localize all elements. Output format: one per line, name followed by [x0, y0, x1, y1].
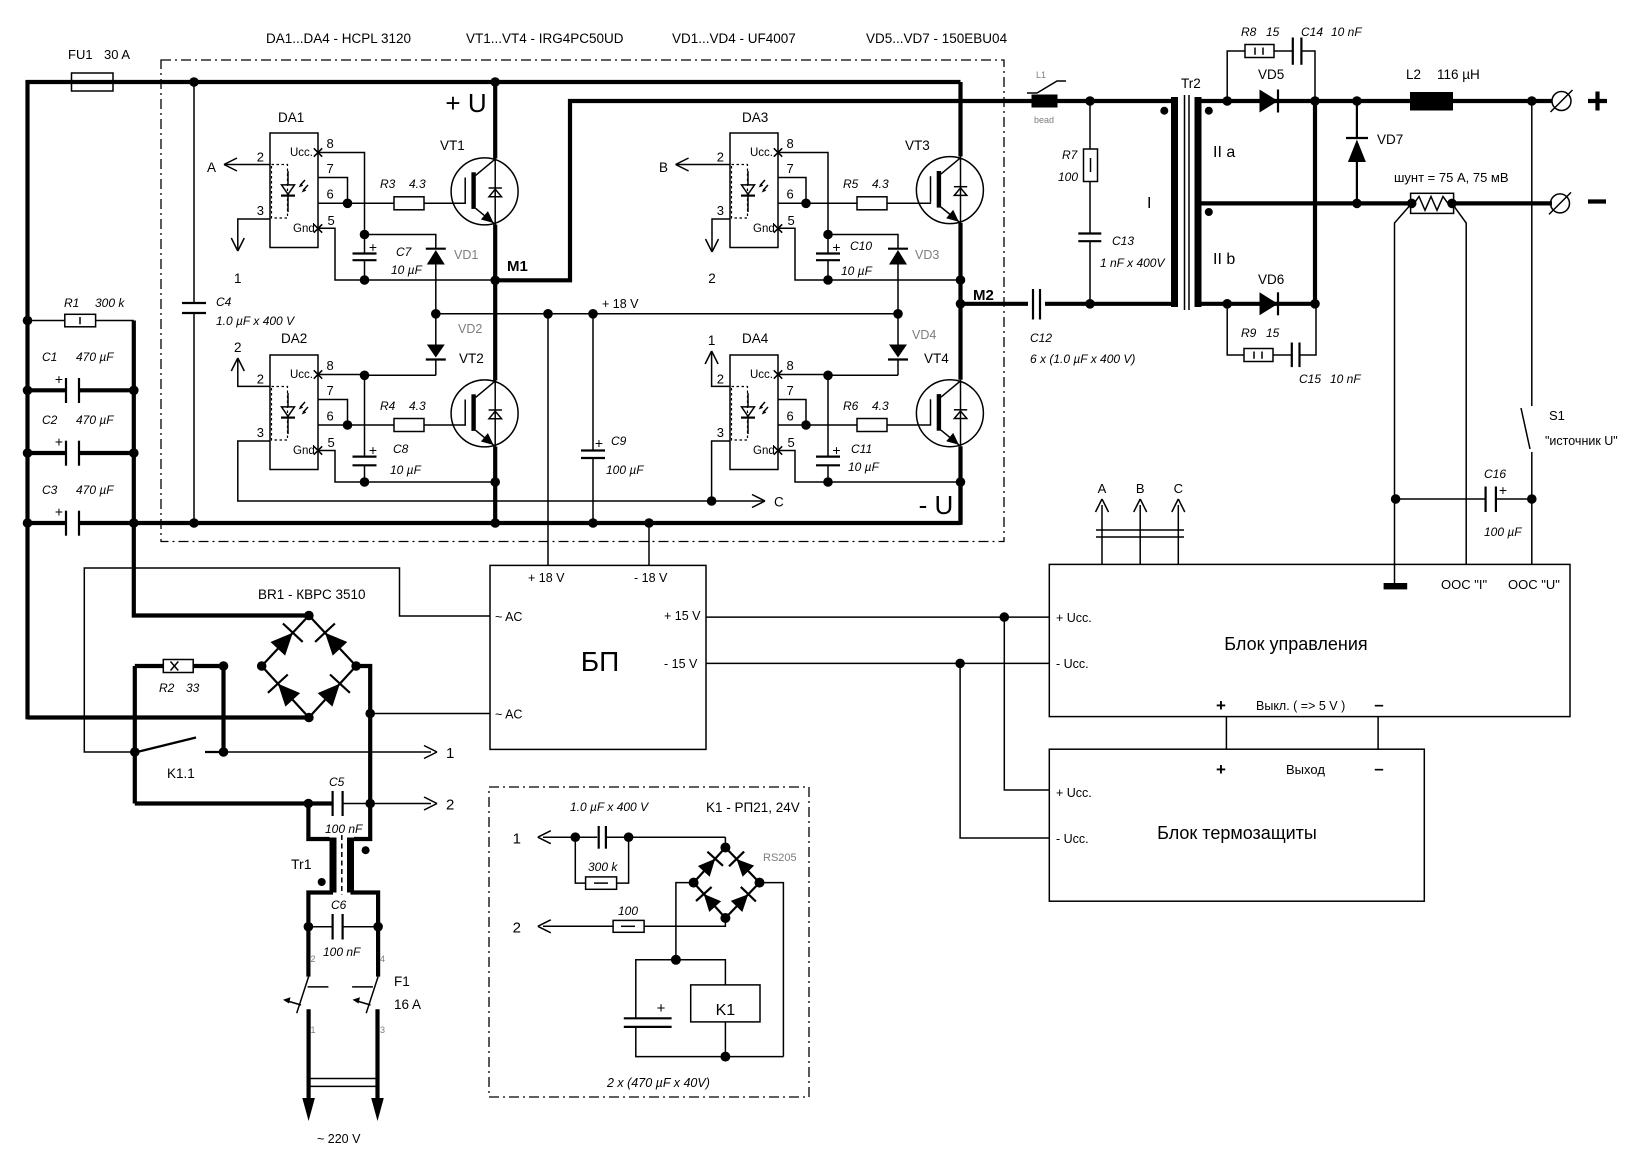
DA1 pin8 Ucc wire	[318, 153, 365, 235]
svg-text:100 µF: 100 µF	[1484, 525, 1522, 539]
svg-text:10 µF: 10 µF	[390, 463, 422, 477]
svg-text:Блок термозащиты: Блок термозащиты	[1157, 823, 1317, 843]
svg-text:5: 5	[328, 435, 335, 450]
DA2 pin6 wire	[318, 424, 394, 426]
capacitor C2 470uF	[28, 451, 67, 455]
wire VT3 emitter / M2	[958, 223, 962, 304]
svg-text:Tr1: Tr1	[291, 856, 312, 872]
wire left vertical bus	[25, 80, 29, 719]
wire 100 to bridge	[644, 918, 725, 926]
svg-text:C9: C9	[611, 434, 627, 448]
node C2 left	[23, 448, 33, 458]
shunt resistor	[1407, 199, 1417, 209]
wire PSU AC bottom feed	[370, 713, 490, 715]
arrows A B C control lines	[1101, 505, 1103, 564]
relay coil K1	[691, 985, 760, 1022]
svg-text:6: 6	[327, 408, 334, 423]
svg-text:C7: C7	[396, 245, 413, 259]
svg-text:4.3: 4.3	[872, 177, 889, 191]
node C2 right	[129, 448, 139, 458]
svg-text:A: A	[207, 160, 216, 175]
wire VT3 collector bus	[958, 82, 962, 157]
resistor R7 100	[1089, 101, 1091, 149]
capacitor C4	[193, 82, 195, 303]
DA3 pin5 Gnd wire	[778, 228, 961, 280]
capacitor C7 10uF	[364, 235, 366, 254]
svg-text:C: C	[1174, 481, 1183, 496]
svg-text:C13: C13	[1112, 234, 1134, 248]
switch K1.1	[130, 747, 140, 757]
optocoupler DA1 HCPL3120	[270, 133, 318, 248]
svg-text:15: 15	[1266, 326, 1280, 340]
node -18V riser	[644, 518, 654, 528]
DA1 pin3 arrow to node 1	[238, 219, 270, 249]
wire K1.1 bus	[133, 666, 137, 804]
svg-text:C15: C15	[1299, 372, 1321, 386]
svg-text:R1: R1	[64, 296, 79, 310]
capacitor C9 100uF	[592, 314, 594, 451]
wire +U top bus	[26, 80, 961, 84]
mains link bars	[309, 1078, 378, 1080]
transistor VT1 IGBT	[451, 158, 518, 225]
capacitor C5 100nF	[332, 791, 334, 816]
wire secondary center tap	[1202, 201, 1412, 205]
capacitor C13	[1078, 232, 1101, 234]
DA3 pin8 Ucc wire	[778, 153, 828, 235]
wire C5 right down to Tr1	[354, 804, 370, 840]
svg-text:C4: C4	[216, 295, 232, 309]
svg-text:~ 220 V: ~ 220 V	[317, 1132, 361, 1146]
svg-text:1: 1	[234, 271, 242, 286]
svg-text:C8: C8	[393, 442, 409, 456]
svg-text:RS205: RS205	[763, 852, 797, 864]
DA4 pin2 arrow 1	[712, 353, 730, 386]
wire VT1 collector bus	[493, 82, 497, 159]
svg-text:+ Ucc.: + Ucc.	[1056, 786, 1092, 800]
svg-text:шунт = 75 А, 75 мВ: шунт = 75 А, 75 мВ	[1394, 170, 1509, 185]
DA4 pin5 Gnd wire	[778, 451, 961, 483]
svg-text:100 nF: 100 nF	[323, 945, 361, 959]
svg-text:3: 3	[717, 203, 724, 218]
svg-text:Gnd: Gnd	[293, 223, 315, 235]
node C10 top	[823, 230, 833, 240]
transformer Tr1	[330, 835, 355, 895]
node DA4 Ucc	[823, 371, 833, 381]
node M2	[956, 299, 966, 309]
output terminal -	[1551, 194, 1570, 213]
block PSU (BP)	[490, 565, 706, 749]
node C9 bottom	[588, 518, 598, 528]
wire to K1 coil	[676, 960, 726, 985]
svg-text:VT1...VT4 - IRG4PC50UD: VT1...VT4 - IRG4PC50UD	[466, 31, 624, 46]
node C5 right	[365, 799, 375, 809]
capacitor C3 470uF	[28, 521, 67, 525]
svg-text:+ Ucc.: + Ucc.	[1056, 611, 1092, 625]
svg-text:K1 - РП21, 24V: K1 - РП21, 24V	[706, 800, 800, 815]
svg-text:1.0 µF x 400 V: 1.0 µF x 400 V	[570, 800, 649, 814]
control bus tie lines	[1096, 529, 1184, 531]
DA2 pin7 wire	[318, 400, 348, 426]
wire Tr1 secondary left down	[308, 893, 333, 927]
node DA2 Ucc	[360, 371, 370, 381]
svg-text:R5: R5	[843, 177, 859, 191]
svg-text:Ucc.: Ucc.	[750, 369, 773, 381]
BR1 diode lower-right	[318, 684, 340, 707]
node relay cap left	[571, 832, 581, 842]
node C6 left	[304, 922, 314, 932]
svg-text:15: 15	[1266, 25, 1280, 39]
svg-text:100: 100	[618, 904, 638, 918]
capacitor C1 470uF	[28, 388, 67, 392]
svg-text:S1: S1	[1549, 408, 1565, 423]
svg-text:VT1: VT1	[440, 138, 465, 153]
svg-text:3: 3	[717, 425, 724, 440]
svg-text:7: 7	[787, 161, 794, 176]
DA4 pin8 wire	[778, 374, 828, 376]
svg-text:+: +	[832, 442, 840, 458]
DA4 pin7 wire	[778, 400, 806, 426]
label terminal minus	[1588, 199, 1606, 203]
node relay minus	[720, 1052, 730, 1062]
Tr1 phase dot left	[318, 878, 326, 886]
wire shunt sense right to OOC I	[1452, 203, 1466, 564]
capacitor C11 10uF	[816, 456, 840, 458]
breaker F1 pole 1	[306, 927, 310, 977]
BR1 diode upper-left	[271, 633, 293, 656]
svg-text:R6: R6	[843, 399, 859, 413]
node line C	[707, 496, 717, 506]
svg-text:VD5: VD5	[1258, 67, 1284, 82]
wire bus to C5	[135, 801, 333, 805]
node VT3 emitter rail	[956, 275, 966, 285]
dash-dot relay K1 enclosure box	[489, 787, 809, 1097]
svg-text:A: A	[1098, 481, 1107, 496]
DA3 pin7 wire	[778, 178, 806, 204]
svg-text:- Ucc.: - Ucc.	[1056, 657, 1089, 671]
node C8 bottom	[360, 477, 370, 487]
svg-text:+: +	[595, 435, 603, 451]
svg-text:DA2: DA2	[281, 331, 307, 346]
node DA2 pin6	[343, 420, 353, 430]
DA4 pin3 wire to line C	[712, 441, 730, 501]
wire R2 bypass vertical	[221, 666, 225, 752]
node RS205 top	[720, 843, 730, 853]
svg-text:M1: M1	[507, 258, 528, 275]
resistor 100 relay	[613, 920, 644, 932]
svg-text:DA1...DA4 - HCPL 3120: DA1...DA4 - HCPL 3120	[266, 31, 411, 46]
node RS205 right	[755, 878, 765, 888]
svg-text:M2: M2	[973, 287, 994, 304]
Tr2 primary phase dot	[1160, 107, 1168, 115]
node C1 left	[23, 386, 33, 396]
snubber R9 C15	[1227, 304, 1244, 355]
svg-text:5: 5	[328, 213, 335, 228]
node relay cap right	[624, 832, 634, 842]
node R2 right	[219, 661, 229, 671]
svg-text:Ucc.: Ucc.	[290, 147, 313, 159]
wire secondary top rail	[1202, 99, 1553, 103]
svg-text:300 k: 300 k	[95, 296, 125, 310]
svg-text:6 x (1.0 µF x 400 V): 6 x (1.0 µF x 400 V)	[1030, 352, 1135, 366]
wire +Ucc to thermal block	[1004, 617, 1049, 790]
diode VD4	[889, 345, 907, 358]
wire mains lead 1	[307, 1009, 311, 1101]
svg-text:–: –	[1374, 759, 1383, 778]
optocoupler DA4 HCPL3120	[730, 355, 778, 470]
svg-text:II b: II b	[1213, 251, 1235, 268]
svg-text:3: 3	[257, 203, 264, 218]
wire M2 rail	[961, 302, 1029, 306]
wire line 2 with arrow	[343, 803, 431, 805]
DA2 pin8 wire	[318, 374, 365, 376]
BR1 diode upper-right	[325, 633, 347, 656]
wire relay line1 to bridge top	[724, 837, 726, 847]
capacitor C16 100uF	[1396, 498, 1486, 500]
DA2 pin2 arrow 2	[238, 360, 270, 386]
svg-text:- U: - U	[919, 490, 954, 520]
svg-text:L1: L1	[1036, 70, 1046, 80]
svg-text:I: I	[1147, 195, 1151, 212]
svg-text:470 µF: 470 µF	[76, 483, 114, 497]
wire VD6 output riser	[1313, 101, 1317, 304]
svg-text:7: 7	[327, 161, 334, 176]
svg-text:30 A: 30 A	[104, 47, 130, 62]
DA1 pin6 wire	[318, 202, 394, 204]
svg-text:470 µF: 470 µF	[76, 413, 114, 427]
svg-text:C14: C14	[1301, 25, 1323, 39]
capacitor 2x470uF relay	[624, 1017, 672, 1019]
svg-text:+: +	[55, 434, 63, 450]
wire RS205 right vertex down	[760, 883, 784, 1057]
wire PSU +15V	[706, 616, 1049, 618]
svg-text:R8: R8	[1241, 25, 1257, 39]
node DA4 pin6	[801, 420, 811, 430]
node RS205 bottom	[720, 913, 730, 923]
svg-text:2: 2	[234, 340, 242, 355]
svg-text:5: 5	[788, 213, 795, 228]
node C4 top	[189, 77, 199, 87]
svg-text:VD6: VD6	[1258, 272, 1284, 287]
node C7 top	[360, 230, 370, 240]
svg-text:DA1: DA1	[278, 110, 304, 125]
DA4 pin6 wire	[778, 424, 857, 426]
svg-text:- Ucc.: - Ucc.	[1056, 832, 1089, 846]
ferrite bead L1	[1027, 81, 1066, 93]
svg-text:VD7: VD7	[1377, 132, 1403, 147]
svg-text:300 k: 300 k	[588, 860, 618, 874]
svg-text:7: 7	[327, 383, 334, 398]
node DA3 pin6	[801, 199, 811, 209]
optocoupler DA3 HCPL3120	[730, 133, 778, 248]
DA3 pin2 input arrow B	[676, 164, 730, 166]
RS205 diode upper-left	[698, 859, 715, 877]
wire VT2 collector	[493, 280, 497, 380]
svg-text:+: +	[1216, 760, 1226, 779]
svg-text:K1.1: K1.1	[167, 766, 195, 781]
transistor VT3 IGBT	[916, 157, 983, 224]
node C16 left	[1391, 494, 1401, 504]
svg-text:Gnd: Gnd	[753, 445, 775, 457]
wire secondary bottom rail	[1202, 302, 1317, 306]
svg-text:B: B	[659, 160, 668, 175]
node C11 bottom	[823, 477, 833, 487]
svg-text:116 µH: 116 µH	[1437, 67, 1480, 82]
wire PSU -15V	[706, 662, 1049, 664]
svg-text:10 nF: 10 nF	[1331, 25, 1362, 39]
svg-text:FU1: FU1	[68, 47, 93, 62]
wire BR1 minus to left bus	[28, 715, 309, 719]
svg-text:+: +	[1499, 482, 1507, 498]
resistor R2 33	[135, 664, 164, 668]
svg-text:C: C	[774, 495, 784, 510]
RS205 diode upper-right	[737, 859, 755, 877]
svg-text:1 nF x 400V: 1 nF x 400V	[1100, 256, 1165, 270]
svg-text:1: 1	[513, 831, 521, 848]
svg-text:8: 8	[787, 358, 794, 373]
node DA1 pin6	[343, 199, 353, 209]
transistor VT2 IGBT	[451, 380, 518, 447]
node VD1-VD2 +18V	[431, 309, 441, 319]
svg-text:DA4: DA4	[742, 331, 769, 346]
DA1 pin7 wire	[318, 178, 348, 204]
svg-text:+ U: + U	[445, 88, 486, 118]
svg-text:VD4: VD4	[912, 328, 936, 342]
node BR1 minus	[304, 713, 314, 723]
output terminal +	[1552, 92, 1571, 111]
svg-text:K1: K1	[716, 1002, 736, 1019]
svg-text:16 A: 16 A	[394, 997, 421, 1012]
DA2 pin5 Gnd wire	[318, 451, 495, 483]
svg-text:5: 5	[788, 435, 795, 450]
node -15V branch	[955, 659, 965, 669]
RS205 diode lower-left	[704, 894, 721, 912]
svg-text:2: 2	[717, 150, 724, 165]
wire shunt sense left (OOC I ground)	[1395, 203, 1412, 583]
diode VD2	[427, 345, 445, 358]
svg-text:+ 18 V: + 18 V	[528, 571, 565, 585]
svg-text:~ AC: ~ AC	[495, 610, 522, 624]
svg-text:10 µF: 10 µF	[391, 263, 423, 277]
node R7 top	[1085, 96, 1095, 106]
block thermal protection	[1049, 749, 1424, 901]
svg-text:VD5...VD7 - 150EBU04: VD5...VD7 - 150EBU04	[866, 31, 1008, 46]
wire relay line 1	[543, 836, 725, 838]
svg-text:+ 15 V: + 15 V	[664, 609, 701, 623]
node BR1 ac1	[257, 661, 267, 671]
node C7 bottom	[360, 275, 370, 285]
svg-text:3: 3	[380, 1025, 385, 1035]
node C4 bottom	[189, 518, 199, 528]
wire BR1 ac2 down	[356, 666, 370, 804]
wire Vykl - interconnect	[1377, 717, 1379, 750]
svg-text:VD1...VD4 - UF4007: VD1...VD4 - UF4007	[672, 31, 796, 46]
svg-text:1.0 µF x 400 V: 1.0 µF x 400 V	[216, 314, 295, 328]
svg-text:+: +	[832, 239, 840, 255]
diode VD5	[1222, 96, 1232, 106]
svg-text:33: 33	[186, 681, 200, 695]
wire K1 coil bottom	[724, 1022, 726, 1057]
wire VT2 emitter	[493, 447, 497, 524]
svg-text:100 µF: 100 µF	[606, 463, 644, 477]
wire line 1 with arrow	[224, 751, 432, 753]
svg-text:Выкл. ( => 5 V ): Выкл. ( => 5 V )	[1256, 699, 1345, 713]
capacitor C6 100nF	[308, 926, 332, 928]
wire RS205 left vertex down	[676, 883, 694, 960]
node RS205 left	[689, 878, 699, 888]
svg-text:БП: БП	[581, 646, 620, 677]
svg-text:10 µF: 10 µF	[841, 264, 873, 278]
svg-text:bead: bead	[1034, 115, 1054, 125]
wire to relay ecap	[636, 960, 676, 1019]
fuse FU1	[72, 73, 114, 91]
node C9 top	[588, 309, 598, 319]
chassis bar terminal	[1384, 583, 1408, 589]
svg-text:6: 6	[787, 186, 794, 201]
node relay coil plus	[671, 955, 681, 965]
resistor R4 4.3	[394, 419, 424, 432]
wire relay line 2	[543, 925, 613, 927]
optocoupler DA2 HCPL3120	[270, 355, 318, 470]
wire VT1 emitter / M1	[493, 225, 497, 281]
svg-text:1: 1	[311, 1025, 316, 1035]
wire PSU AC top feed	[84, 568, 490, 752]
wire VT4 collector	[958, 304, 962, 380]
svg-text:10 nF: 10 nF	[1330, 372, 1361, 386]
svg-text:Ucc.: Ucc.	[290, 369, 313, 381]
wire VT4 emitter	[958, 446, 962, 523]
resistor R5 4.3	[857, 197, 887, 210]
svg-text:ООС "U": ООС "U"	[1508, 577, 1560, 592]
node C3 left	[23, 518, 33, 528]
svg-text:C2: C2	[42, 413, 58, 427]
capacitor C10 10uF	[827, 235, 829, 254]
svg-text:+: +	[1216, 696, 1226, 715]
resistor R6 4.3	[857, 419, 887, 432]
node R1 left	[23, 316, 33, 326]
svg-text:–: –	[1374, 695, 1383, 714]
svg-text:2: 2	[311, 954, 316, 964]
label terminal plus	[1588, 99, 1607, 103]
svg-text:R2: R2	[159, 681, 175, 695]
node C10 bottom	[823, 275, 833, 285]
DA1 pin5 Gnd wire	[318, 228, 495, 280]
node VD3-VD4 +18V	[893, 309, 903, 319]
capacitor 1.0uF relay	[597, 826, 606, 848]
resistor R1 300k	[28, 320, 65, 322]
switch S1	[1531, 101, 1533, 406]
svg-text:+: +	[657, 1000, 666, 1017]
svg-text:2: 2	[257, 372, 264, 387]
Tr2 IIa phase dot	[1205, 107, 1213, 115]
diode VD7	[1352, 96, 1362, 106]
node VD6 out	[1310, 299, 1320, 309]
svg-text:"источник U": "источник U"	[1545, 434, 1618, 448]
node L2 out	[1527, 96, 1537, 106]
svg-text:1: 1	[446, 745, 454, 762]
svg-text:2: 2	[257, 150, 264, 165]
svg-text:+: +	[369, 442, 377, 458]
svg-text:VT2: VT2	[459, 351, 484, 366]
node VD5 out	[1310, 96, 1320, 106]
diode VD3	[828, 235, 898, 249]
node BR1 ac2	[351, 661, 361, 671]
node C5 left	[304, 799, 314, 809]
svg-text:Gnd: Gnd	[293, 445, 315, 457]
svg-text:10 µF: 10 µF	[848, 460, 880, 474]
svg-text:Ucc.: Ucc.	[750, 147, 773, 159]
svg-text:2: 2	[708, 271, 716, 286]
bridge BR1 diamond	[262, 616, 356, 718]
